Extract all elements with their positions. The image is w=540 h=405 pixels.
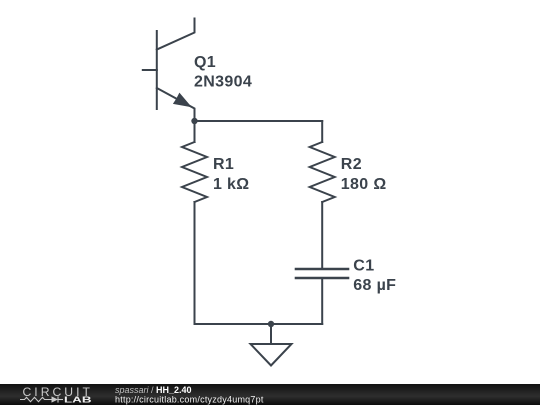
svg-text:68 µF: 68 µF xyxy=(353,277,396,294)
wire R1 bottom lead xyxy=(194,202,196,324)
wire R2 top lead xyxy=(321,121,323,142)
logo resistor-diode icon xyxy=(20,396,63,402)
svg-text:C1: C1 xyxy=(353,258,374,275)
resistor R1 xyxy=(182,142,207,202)
wire node A to R2 branch (horizontal top) xyxy=(195,120,323,122)
svg-text:Q1: Q1 xyxy=(194,54,216,71)
node B (ground junction) xyxy=(268,321,274,327)
node A (collector-R1-R2 junction) xyxy=(191,118,197,124)
footer bar xyxy=(0,384,540,405)
svg-text:R1: R1 xyxy=(213,156,234,173)
capacitor C1 xyxy=(296,269,348,278)
ground xyxy=(251,344,292,366)
wire R2 to C1 xyxy=(321,202,323,269)
transistor Q1 xyxy=(143,19,195,122)
svg-text:1 kΩ: 1 kΩ xyxy=(213,176,249,193)
svg-text:R2: R2 xyxy=(341,156,362,173)
wire C1 bottom lead xyxy=(321,278,323,324)
wire ground stub xyxy=(270,324,272,344)
svg-text:2N3904: 2N3904 xyxy=(194,74,252,91)
wire bottom rail xyxy=(195,323,323,325)
svg-text:180 Ω: 180 Ω xyxy=(341,176,387,193)
wire R1 top lead xyxy=(194,121,196,142)
resistor R2 xyxy=(310,142,335,202)
